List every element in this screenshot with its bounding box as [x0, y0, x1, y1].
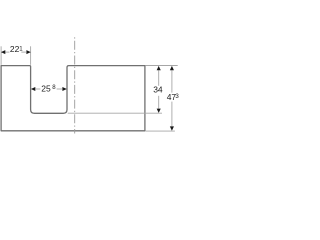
svg-text:8: 8	[52, 84, 56, 91]
svg-text:25: 25	[41, 84, 51, 94]
svg-text:22: 22	[10, 44, 20, 54]
svg-text:34: 34	[153, 84, 163, 94]
svg-text:1: 1	[19, 45, 23, 52]
